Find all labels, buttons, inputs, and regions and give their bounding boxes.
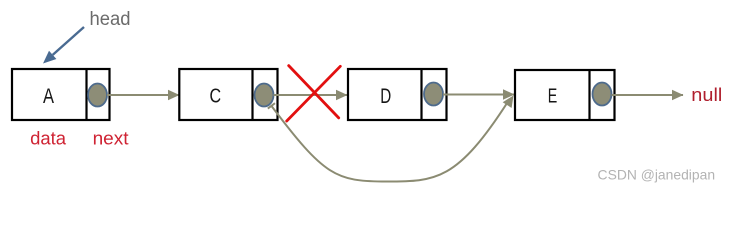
node C box <box>179 69 277 120</box>
svg-text:E: E <box>548 85 558 108</box>
node D box <box>348 69 447 120</box>
wire arrow A to C <box>107 94 179 96</box>
red X delete mark <box>287 66 341 121</box>
svg-text:D: D <box>380 85 391 108</box>
svg-text:next: next <box>93 128 129 148</box>
svg-text:data: data <box>30 128 67 148</box>
svg-text:null: null <box>691 85 722 105</box>
node E box <box>515 70 615 120</box>
svg-text:CSDN @janedipan: CSDN @janedipan <box>598 167 716 183</box>
node E pointer dot <box>593 83 612 106</box>
wire arrow C to D (deleted link) <box>274 94 348 96</box>
node A box <box>12 69 110 120</box>
head pointer arrow <box>43 27 84 64</box>
svg-text:A: A <box>43 85 54 108</box>
node C pointer dot <box>255 84 274 107</box>
node A pointer dot <box>88 84 107 107</box>
svg-text:head: head <box>90 9 131 30</box>
node D pointer dot <box>424 83 443 106</box>
wire arrow E to null <box>612 94 684 96</box>
curved bypass arrow C to E <box>268 96 514 182</box>
wire arrow D to E <box>443 94 514 96</box>
svg-text:C: C <box>210 85 222 108</box>
